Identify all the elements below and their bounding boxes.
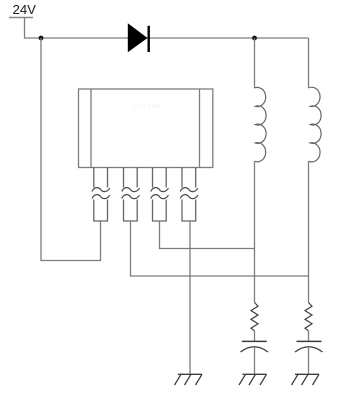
resistor R2 — [305, 303, 312, 331]
ground right bar — [295, 373, 319, 375]
node junction right — [252, 36, 257, 41]
IC U1 body — [79, 89, 213, 168]
wire C1 to ground — [254, 347, 256, 374]
IC U1 left flange line — [90, 89, 92, 168]
svg-text:24V: 24V — [13, 2, 37, 17]
wire R1 to C1 — [254, 331, 256, 342]
capacitor C2 top plate — [297, 340, 322, 342]
ground middle hatches — [175, 374, 203, 385]
net 24V bar — [9, 17, 33, 19]
wire left column upper — [254, 38, 256, 88]
resistor R1 — [251, 303, 258, 331]
pin 3 break squiggles — [151, 188, 169, 199]
pin 3 lower lead — [153, 200, 167, 222]
diode D1 triangle — [128, 23, 148, 52]
wire left drop to pin1 — [41, 38, 101, 261]
wire top rail — [41, 37, 309, 39]
inductor L2 — [309, 87, 322, 162]
ground left hatches — [239, 374, 267, 385]
ground middle bar — [178, 373, 202, 375]
pin 4 lower lead — [182, 200, 196, 222]
capacitor C2 curved plate — [295, 347, 323, 352]
svg-text:ooo aaa: ooo aaa — [134, 103, 159, 110]
wire right column upper — [308, 38, 310, 88]
wire C2 to ground — [308, 347, 310, 374]
wire 24V stem — [25, 18, 42, 39]
pin 4 break squiggles — [180, 188, 198, 199]
ground left bar — [243, 373, 267, 375]
ground right hatches — [292, 374, 320, 385]
wire pin4 to ground — [189, 221, 191, 374]
capacitor C1 top plate — [242, 340, 267, 342]
pin 2 upper lead — [124, 168, 138, 188]
inductor L1 — [255, 87, 267, 161]
pin 2 break squiggles — [122, 188, 140, 199]
pin 1 break squiggles — [92, 188, 110, 199]
wire R2 to C2 — [308, 331, 310, 342]
pin 3 upper lead — [153, 168, 167, 188]
capacitor C1 curved plate — [241, 347, 269, 352]
node junction left — [39, 36, 44, 41]
wire pin2 to right column — [131, 221, 309, 276]
wire right column mid — [308, 161, 310, 302]
pin 1 lower lead — [94, 200, 108, 222]
pin 1 upper lead — [94, 168, 108, 188]
IC U1 right flange line — [199, 89, 201, 168]
pin 2 lower lead — [124, 200, 138, 222]
pin 4 upper lead — [182, 168, 196, 188]
diode D1 cathode bar — [147, 26, 149, 52]
wire pin3 to left column — [160, 221, 255, 249]
wire left column mid — [254, 161, 256, 302]
